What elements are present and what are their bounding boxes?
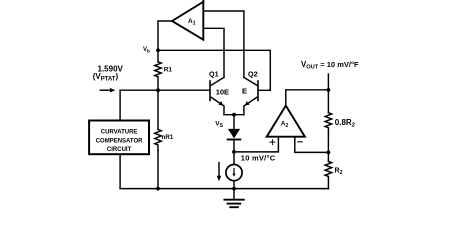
wire A2 minus input to feedback node xyxy=(295,137,329,153)
transistor Q1 xyxy=(209,69,229,114)
svg-text:VS: VS xyxy=(215,120,223,128)
wire A1 output to node Vb xyxy=(158,21,172,50)
svg-text:Q2: Q2 xyxy=(248,69,258,78)
svg-text:VOUT = 10 mV/°F: VOUT = 10 mV/°F xyxy=(301,60,359,71)
node feedback xyxy=(327,151,331,155)
op-amp A1 xyxy=(172,0,203,40)
svg-text:10 mV/°C: 10 mV/°C xyxy=(241,154,276,163)
svg-text:R1: R1 xyxy=(164,67,173,74)
svg-text:1.590V: 1.590V xyxy=(98,64,124,73)
resistor 0.8R2 xyxy=(325,90,355,153)
svg-text:Q1: Q1 xyxy=(209,69,219,78)
wire bottom rail xyxy=(120,188,328,190)
node Vb xyxy=(143,47,160,54)
svg-text:CIRCUIT: CIRCUIT xyxy=(107,147,132,153)
label 1.590V (VPTAT) xyxy=(93,64,124,82)
wire A2 output to VOUT node xyxy=(286,90,329,106)
svg-text:10E: 10E xyxy=(216,88,229,97)
label minus input xyxy=(298,141,302,143)
svg-text:R2: R2 xyxy=(335,168,343,177)
curvature compensator circuit box xyxy=(89,121,149,155)
svg-text:(VPTAT): (VPTAT) xyxy=(93,72,119,83)
node 10mV/C xyxy=(232,150,276,163)
current source I xyxy=(226,152,242,189)
wire Vb rail to Q2 base xyxy=(158,50,270,90)
wire curvature box to bottom rail xyxy=(119,155,121,188)
arrow current direction xyxy=(217,163,222,182)
wire A1 bottom input to Q1 collector xyxy=(203,28,224,77)
diode xyxy=(228,129,241,152)
transistor Q2 xyxy=(242,69,258,114)
arrow VPTAT input xyxy=(100,88,115,93)
wire VS to diode xyxy=(233,115,235,129)
label plus input xyxy=(270,140,275,145)
resistor nR1 xyxy=(155,90,174,188)
node VS xyxy=(215,113,244,129)
node nR1 bottom junction xyxy=(156,187,160,191)
wire VPTAT node horizontal to Q1 base xyxy=(120,89,210,91)
node ground junction xyxy=(232,187,236,191)
wire VPTAT node down to curvature box xyxy=(119,90,121,119)
svg-text:A2: A2 xyxy=(281,121,289,129)
ground xyxy=(224,189,243,208)
svg-text:COMPENSATOR: COMPENSATOR xyxy=(96,139,143,145)
node VOUT xyxy=(301,60,359,92)
wire node to A2 plus input xyxy=(234,137,278,152)
svg-text:E: E xyxy=(242,87,247,96)
wire A1 top input to Q2 collector xyxy=(203,11,244,77)
op-amp A2 xyxy=(267,106,305,137)
svg-text:A1: A1 xyxy=(188,18,196,26)
resistor R1 xyxy=(155,50,173,90)
node VPTAT junction xyxy=(156,88,160,92)
svg-text:Vb: Vb xyxy=(143,47,150,54)
svg-text:CURVATURE: CURVATURE xyxy=(101,129,138,135)
svg-text:0.8R2: 0.8R2 xyxy=(335,118,355,129)
svg-text:nR1: nR1 xyxy=(162,134,174,141)
resistor R2 xyxy=(325,152,342,188)
